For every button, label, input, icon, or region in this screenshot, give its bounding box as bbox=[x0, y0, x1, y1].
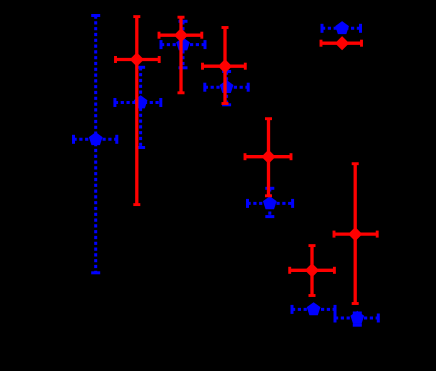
red data point Rleg: vertical error bar bbox=[0, 0, 1, 1]
blue pentagon marker P4 bbox=[220, 80, 234, 93]
red diamond marker R2 bbox=[174, 28, 188, 42]
red diamond marker R1 bbox=[130, 52, 144, 66]
red data point R4: vertical error bar bbox=[265, 119, 272, 196]
blue data point P6: horizontal error bar bbox=[292, 305, 335, 314]
blue data point P1: vertical error bar bbox=[91, 16, 100, 273]
blue data point Pleg: horizontal error bar bbox=[322, 24, 361, 33]
red diamond marker R4 bbox=[261, 150, 275, 164]
blue data point P6: vertical error bar bbox=[0, 0, 1, 1]
red data point R2: vertical error bar bbox=[178, 17, 185, 93]
red diamond marker R6 bbox=[348, 227, 362, 241]
red data point Rleg: horizontal error bar bbox=[321, 40, 362, 47]
blue data point P7: vertical error bar bbox=[353, 313, 362, 325]
blue data point P3: horizontal error bar bbox=[161, 40, 205, 49]
blue data point P4: horizontal error bar bbox=[205, 83, 248, 92]
blue data point P5: horizontal error bar bbox=[248, 199, 293, 208]
red diamond marker R3 bbox=[218, 59, 232, 73]
blue pentagon marker Pleg bbox=[335, 21, 349, 34]
blue data point P2: horizontal error bar bbox=[115, 98, 161, 107]
blue pentagon marker P6 bbox=[307, 302, 321, 315]
red diamond marker Rleg bbox=[335, 36, 349, 50]
blue data point P3: vertical error bar bbox=[179, 21, 188, 68]
red data point R6: horizontal error bar bbox=[334, 231, 377, 238]
blue data point P7: horizontal error bar bbox=[335, 314, 378, 323]
red data point R1: vertical error bar bbox=[133, 17, 140, 205]
blue pentagon marker P1 bbox=[89, 132, 103, 145]
blue pentagon marker P5 bbox=[263, 196, 277, 209]
red diamond marker R5 bbox=[305, 263, 319, 277]
red data point R1: horizontal error bar bbox=[116, 56, 160, 63]
red data point R5: vertical error bar bbox=[309, 246, 316, 296]
blue data point P1: horizontal error bar bbox=[74, 135, 117, 144]
red data point R2: horizontal error bar bbox=[159, 32, 202, 39]
blue data point Pleg: vertical error bar bbox=[0, 0, 1, 1]
red data point R3: vertical error bar bbox=[222, 28, 229, 104]
red data point R4: horizontal error bar bbox=[245, 153, 291, 160]
blue pentagon marker P3 bbox=[176, 37, 190, 50]
red data point R3: horizontal error bar bbox=[203, 63, 246, 70]
blue data point P5: vertical error bar bbox=[265, 188, 274, 216]
blue pentagon marker P2 bbox=[134, 95, 148, 108]
red data point R6: vertical error bar bbox=[352, 164, 359, 304]
blue data point P2: vertical error bar bbox=[136, 67, 145, 147]
blue data point P4: vertical error bar bbox=[222, 72, 231, 105]
blue pentagon marker P7 bbox=[350, 311, 364, 324]
red data point R5: horizontal error bar bbox=[290, 267, 335, 274]
